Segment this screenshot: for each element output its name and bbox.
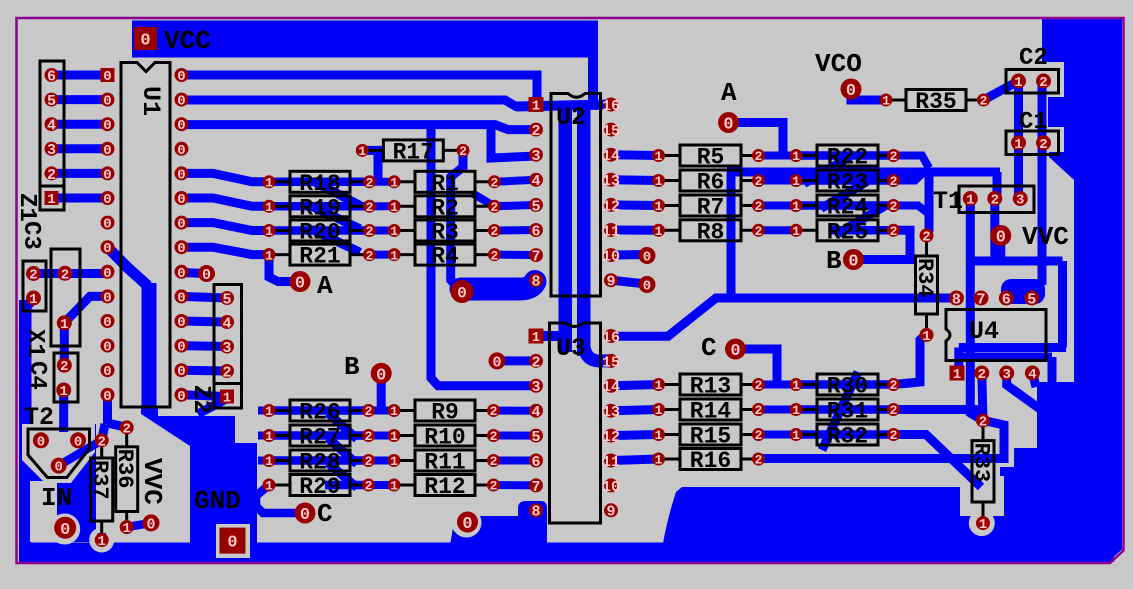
pad 2	[120, 420, 134, 434]
svg-text:R25: R25	[827, 219, 868, 245]
svg-text:1: 1	[265, 404, 273, 419]
pad 2	[887, 403, 900, 416]
svg-text:9: 9	[606, 504, 615, 521]
pad 2	[95, 433, 109, 447]
wire diagonal R26 to R27.2	[328, 413, 357, 439]
pad Z2.2	[220, 364, 234, 378]
svg-text:1: 1	[532, 330, 540, 346]
svg-text:3: 3	[1016, 193, 1024, 209]
resistor R29	[269, 484, 290, 487]
pad Z1.1 square	[45, 191, 59, 205]
pad U1 right	[175, 363, 189, 377]
wire R9.2 to U3.4	[494, 407, 537, 415]
svg-text:1: 1	[532, 99, 540, 115]
svg-text:2: 2	[890, 378, 898, 393]
via U3.2	[489, 352, 506, 369]
svg-text:T1: T1	[933, 187, 963, 216]
pad 2	[887, 378, 900, 391]
resistor R10	[394, 434, 415, 437]
pad 2	[363, 248, 376, 261]
pad U4.8	[949, 291, 964, 306]
svg-text:C: C	[317, 499, 333, 529]
wire U1 to Z2.1	[182, 395, 228, 397]
wire R5-8.2 to R22-25.1	[759, 202, 797, 210]
resistor R1	[394, 180, 415, 183]
svg-text:R5: R5	[697, 145, 725, 171]
svg-text:U4: U4	[969, 317, 999, 346]
svg-text:1: 1	[59, 384, 67, 400]
svg-text:C3: C3	[17, 221, 44, 250]
svg-text:R6: R6	[697, 170, 725, 196]
svg-text:1: 1	[655, 378, 663, 393]
wire through R28	[269, 456, 369, 465]
pad U2.13	[604, 173, 618, 187]
svg-text:2: 2	[890, 199, 898, 214]
pad U1 right	[175, 93, 189, 107]
resistor R20	[269, 229, 290, 232]
svg-text:VVC: VVC	[137, 458, 167, 505]
wire thick elbow to U3.15	[584, 340, 612, 361]
svg-text:0: 0	[457, 284, 467, 302]
wire U4.2 to R33.2	[982, 372, 983, 420]
wire R26-29.2 to R9-12.1	[369, 407, 395, 415]
wire through R20	[269, 226, 369, 235]
pad 2	[362, 479, 375, 492]
wire U2.11 to R8.1	[611, 226, 659, 235]
resistor R27	[269, 434, 290, 437]
pad U4.5	[1024, 291, 1039, 306]
pad 2	[363, 200, 376, 213]
svg-text:U3: U3	[556, 334, 586, 363]
svg-text:R37: R37	[87, 460, 112, 500]
svg-text:0: 0	[462, 515, 472, 534]
pad U1 left	[101, 216, 115, 230]
svg-text:1: 1	[60, 317, 68, 333]
resistor R17	[362, 149, 383, 152]
svg-text:1: 1	[122, 521, 130, 537]
wire through R31	[796, 405, 894, 414]
pad U1 left	[101, 191, 115, 205]
pad 1	[790, 199, 803, 212]
svg-text:3: 3	[531, 379, 540, 396]
svg-text:2: 2	[61, 267, 69, 283]
pad Z2.3	[220, 340, 234, 354]
svg-text:2: 2	[365, 454, 373, 469]
svg-text:5: 5	[531, 198, 540, 215]
pad 2	[488, 224, 501, 237]
svg-text:B: B	[826, 246, 842, 276]
pad X1.1	[57, 315, 72, 330]
wire into U4.1	[954, 348, 963, 374]
pad U1 right	[175, 191, 189, 205]
pad U2.11	[604, 223, 618, 237]
resistor R22	[796, 154, 817, 157]
svg-text:16: 16	[602, 98, 620, 115]
svg-text:0: 0	[848, 253, 858, 272]
svg-text:1: 1	[390, 479, 398, 494]
pad 2	[752, 199, 765, 212]
pad C2.1	[1011, 74, 1026, 89]
wire U1 to X1.1	[64, 296, 107, 323]
resistor R18	[269, 180, 290, 183]
wire R18-21.2 to R1-4.1 row	[369, 227, 395, 235]
wire U3.2 to via	[497, 356, 536, 365]
pad U3.8	[529, 503, 543, 517]
svg-text:1: 1	[792, 174, 800, 189]
pad U4.3	[999, 366, 1014, 381]
resistor R14	[659, 408, 681, 411]
wire through R32	[796, 430, 894, 439]
wire T1.1 down to R33.2	[970, 199, 983, 421]
svg-text:0: 0	[146, 516, 155, 533]
svg-text:1: 1	[792, 378, 800, 393]
svg-text:0: 0	[177, 94, 185, 110]
svg-text:2: 2	[490, 175, 498, 190]
svg-text:7: 7	[531, 249, 540, 266]
pad 2	[487, 454, 500, 467]
pad 2	[488, 175, 501, 188]
pad 1	[388, 479, 401, 492]
svg-text:R2: R2	[431, 195, 459, 221]
svg-text:7: 7	[976, 291, 985, 308]
wire R21.1 to via A	[269, 255, 300, 282]
wire R32.2 to pour	[894, 435, 982, 488]
wire U3.1 stub into box	[540, 331, 565, 341]
wire R35.2 to C2.1	[984, 81, 1019, 100]
svg-text:0: 0	[37, 434, 45, 450]
svg-text:1: 1	[979, 517, 987, 533]
svg-text:2: 2	[755, 174, 763, 189]
clearance around GND pad	[216, 524, 250, 558]
svg-text:0: 0	[54, 460, 62, 476]
wire via C to R30.1 row	[736, 349, 778, 385]
svg-text:1: 1	[390, 404, 398, 419]
svg-text:VCC: VCC	[164, 26, 211, 56]
svg-text:0: 0	[177, 217, 185, 233]
svg-text:1: 1	[390, 248, 398, 263]
svg-text:R28: R28	[299, 450, 340, 476]
wire Z1.2 to U1	[52, 169, 108, 178]
wire diagonal R24 to R23	[821, 182, 867, 209]
pad X1.2	[58, 266, 73, 281]
capacitor C2 outline	[1006, 70, 1059, 94]
capacitor C4 outline	[54, 353, 78, 402]
via near R36.1	[143, 514, 160, 531]
svg-text:5: 5	[222, 291, 231, 308]
svg-text:11: 11	[602, 454, 620, 471]
pad U2.6	[529, 223, 543, 237]
wire down to pour	[1048, 357, 1057, 392]
svg-text:4: 4	[222, 315, 231, 332]
wire R26-29.2 to R9-12.1	[369, 457, 395, 465]
pad 1	[880, 94, 893, 107]
resistor R28	[269, 459, 290, 462]
pad U3.5	[529, 429, 543, 443]
via C left	[295, 503, 316, 524]
svg-text:2: 2	[366, 175, 374, 190]
wire R25.2 to via B	[854, 230, 911, 259]
pad 1	[120, 520, 134, 534]
resistor R9	[394, 409, 415, 412]
wire through R23	[796, 176, 894, 185]
wire R24.2 right	[894, 206, 930, 215]
left edge copper band	[19, 300, 32, 561]
svg-text:1: 1	[390, 175, 398, 190]
svg-text:1: 1	[655, 149, 663, 164]
resistor R30	[796, 383, 817, 386]
wire pour bar to U2.16	[588, 57, 598, 101]
wire horizontal VVC net	[966, 257, 1063, 266]
svg-text:0: 0	[103, 241, 111, 257]
wire vertical junction up	[727, 172, 736, 298]
svg-text:R12: R12	[424, 474, 465, 500]
pad 2	[887, 149, 900, 162]
wire U3.16 to U4.8	[611, 298, 956, 336]
pad 2	[457, 144, 470, 157]
svg-text:R16: R16	[690, 448, 731, 474]
svg-text:2: 2	[531, 123, 540, 140]
wire diagonal R20 to R21.2	[311, 229, 360, 252]
pad 2	[977, 94, 990, 107]
wire R11.2 to U3.6	[494, 457, 537, 465]
pad U1 left	[101, 117, 115, 131]
svg-text:0: 0	[103, 315, 111, 331]
wire U3.12 to R15.1	[611, 435, 659, 436]
pad Z2.1 square	[220, 390, 234, 404]
pad 1	[388, 429, 401, 442]
svg-text:0: 0	[300, 506, 310, 525]
via B left	[371, 363, 392, 384]
svg-text:2: 2	[980, 94, 988, 109]
wire through R19	[269, 202, 369, 211]
svg-text:1: 1	[953, 367, 961, 383]
pad U3.7	[529, 478, 543, 492]
pad C1.1	[1011, 135, 1026, 150]
wire long diagonal across R30 R31	[822, 372, 858, 450]
connector Z1 outline	[40, 61, 64, 210]
svg-text:2: 2	[991, 193, 999, 209]
svg-text:2: 2	[531, 354, 540, 371]
resistor R19	[269, 205, 290, 208]
svg-text:1: 1	[882, 94, 890, 109]
svg-text:0: 0	[60, 521, 70, 540]
pad 1	[652, 224, 665, 237]
svg-text:4: 4	[47, 118, 56, 135]
pad 1	[652, 378, 665, 391]
wire X1.1 to C4.2	[60, 323, 69, 365]
svg-text:0: 0	[177, 290, 185, 306]
svg-text:VCO: VCO	[815, 49, 862, 79]
svg-text:R21: R21	[299, 244, 340, 270]
svg-text:0: 0	[723, 116, 733, 135]
wire through R18	[269, 178, 369, 187]
svg-text:R19: R19	[299, 195, 340, 221]
svg-text:R3: R3	[431, 220, 459, 246]
svg-text:12: 12	[602, 198, 620, 215]
bottom copper bar	[19, 543, 1114, 563]
svg-text:1: 1	[792, 224, 800, 239]
wire U1 to R18.1	[182, 173, 270, 181]
wire R26-29.2 to R9-12.1	[369, 481, 395, 489]
svg-text:1: 1	[390, 454, 398, 469]
pad U1 left	[101, 289, 115, 303]
pad U3.3	[529, 379, 543, 393]
svg-text:5: 5	[1027, 291, 1036, 308]
pad 1	[652, 174, 665, 187]
svg-text:1: 1	[655, 224, 663, 239]
pad 2	[488, 200, 501, 213]
wire R36.1 to via	[127, 523, 151, 527]
svg-text:0: 0	[177, 340, 185, 356]
svg-text:2: 2	[97, 434, 105, 450]
svg-text:2: 2	[1039, 75, 1047, 91]
svg-text:2: 2	[222, 364, 231, 381]
via U2.9	[639, 276, 656, 293]
resistor R2	[394, 205, 415, 208]
wire U1 row2 to U2.1	[182, 100, 537, 107]
svg-text:1: 1	[655, 428, 663, 443]
svg-text:0: 0	[74, 434, 82, 450]
pad U1 left row1 square	[101, 68, 115, 82]
svg-text:2: 2	[755, 378, 763, 393]
svg-text:1: 1	[265, 479, 273, 494]
pad U2.2	[529, 123, 543, 137]
wire R17.1 down to R18.2 row	[364, 150, 378, 181]
svg-text:R35: R35	[915, 89, 956, 115]
resistor R15	[659, 433, 681, 436]
resistor R11	[394, 459, 415, 462]
svg-text:1: 1	[390, 224, 398, 239]
svg-text:0: 0	[643, 250, 651, 266]
pad U1 right	[175, 339, 189, 353]
svg-text:A: A	[317, 271, 333, 301]
wire R2.2 to U2.5	[494, 205, 536, 206]
op-amp U3 outline	[550, 323, 601, 523]
pad 1	[388, 248, 401, 261]
svg-text:C1: C1	[1019, 109, 1048, 136]
wire U3.13 to R14.1	[611, 410, 659, 411]
svg-text:2: 2	[890, 428, 898, 443]
pad Z2.4	[220, 315, 234, 329]
pad U2.4	[529, 173, 543, 187]
wire C3.2 X1.2 to U1 row	[34, 269, 108, 278]
svg-text:0: 0	[846, 82, 856, 101]
wire horizontal to T1	[727, 168, 1000, 177]
svg-text:C4: C4	[23, 361, 50, 390]
via on thick trace	[451, 280, 474, 303]
pad 2	[363, 224, 376, 237]
pad 1	[920, 328, 934, 342]
svg-text:R1: R1	[431, 171, 459, 197]
svg-text:0: 0	[177, 315, 185, 331]
wire U4.4 to pour	[1032, 372, 1036, 387]
clearance around R33 body in pour	[960, 476, 1004, 516]
wire R26-29.2 to R9-12.1	[369, 432, 395, 440]
GND pour block bottom-left-center	[141, 407, 257, 547]
pad U1 left	[101, 339, 115, 353]
wire Z1.5 to U1	[52, 95, 108, 104]
svg-text:3: 3	[222, 340, 231, 357]
wire R37.1 to bottom bar	[97, 533, 106, 546]
pad 1	[388, 224, 401, 237]
svg-text:U1: U1	[136, 86, 165, 116]
svg-text:VVC: VVC	[1022, 222, 1069, 252]
svg-text:R20: R20	[299, 220, 340, 246]
svg-text:2: 2	[366, 200, 374, 215]
svg-text:16: 16	[602, 329, 620, 346]
pad U1 right	[175, 265, 189, 279]
clearance around R33 pad 1	[969, 510, 995, 536]
svg-text:1: 1	[792, 149, 800, 164]
pad 1	[263, 454, 276, 467]
pad U1 left	[101, 388, 115, 402]
wire R1.2 to U2.4	[494, 180, 536, 182]
wire pour to Z2 pin1	[198, 399, 226, 414]
svg-text:4: 4	[531, 404, 540, 421]
pad T2.2	[70, 432, 86, 448]
svg-text:1: 1	[792, 199, 800, 214]
svg-text:1: 1	[265, 454, 273, 469]
svg-text:0: 0	[177, 167, 185, 183]
op-amp U1 outline	[121, 63, 170, 408]
via U1 row9	[198, 265, 215, 282]
clearance around IN via	[49, 514, 80, 545]
wire down to R34.2	[927, 172, 929, 236]
pad 2	[487, 429, 500, 442]
svg-text:0: 0	[177, 118, 185, 134]
pad 1	[263, 175, 276, 188]
wire Z1.4 to U1	[52, 120, 108, 129]
svg-text:2: 2	[755, 149, 763, 164]
copper block left of R37	[57, 481, 92, 542]
via A right	[718, 112, 739, 133]
svg-text:14: 14	[602, 379, 620, 396]
svg-text:0: 0	[492, 354, 501, 371]
svg-text:T2: T2	[24, 403, 54, 432]
svg-text:2: 2	[755, 403, 763, 418]
pad 1	[388, 454, 401, 467]
wire diagonal R27 to R28.2	[328, 438, 357, 464]
svg-text:13: 13	[602, 173, 620, 190]
svg-text:2: 2	[490, 200, 498, 215]
svg-text:2: 2	[890, 149, 898, 164]
pad 1	[263, 248, 276, 261]
svg-text:Z1: Z1	[13, 193, 40, 222]
pad U1 left	[101, 166, 115, 180]
wire U1 row3 to U2.2	[182, 125, 537, 130]
resistor R32	[796, 433, 817, 436]
pad U3.14	[604, 379, 618, 393]
svg-text:0: 0	[103, 192, 111, 208]
pad U1 right	[175, 314, 189, 328]
capacitor C1 outline	[1006, 131, 1059, 155]
svg-text:2: 2	[122, 421, 130, 437]
svg-text:1: 1	[966, 193, 974, 209]
wire U3.11 to R16.1	[611, 459, 659, 461]
svg-text:R33: R33	[969, 443, 994, 483]
wire through R30	[796, 380, 894, 389]
pad 2	[920, 229, 934, 243]
wire R23.2 right	[894, 172, 925, 181]
svg-text:R30: R30	[827, 374, 868, 400]
pad 2	[487, 479, 500, 492]
pad T2.3	[51, 458, 67, 474]
connector Z2 outline	[214, 285, 242, 409]
pad 1	[356, 144, 369, 157]
wire branch down to U2.3	[491, 127, 536, 158]
wire vertical to U3.3	[431, 125, 536, 386]
svg-text:R7: R7	[697, 195, 725, 221]
